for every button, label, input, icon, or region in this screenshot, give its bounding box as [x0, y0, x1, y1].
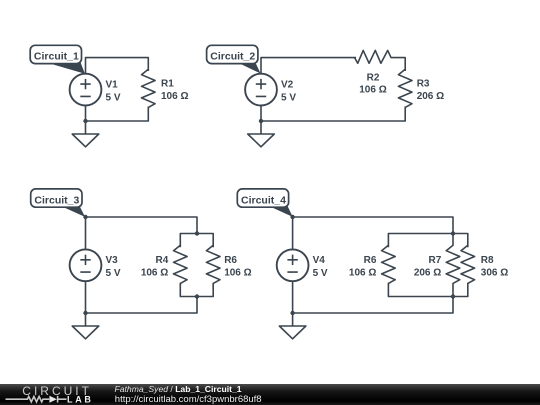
svg-text:Circuit_3: Circuit_3	[34, 194, 79, 206]
node junction C1	[83, 119, 87, 123]
node junction C2	[259, 119, 263, 123]
wire R3 bottom to node	[261, 107, 405, 122]
svg-text:R2: R2	[367, 72, 380, 83]
wire V2 bottom to ground	[260, 106, 262, 135]
svg-text:Circuit_1: Circuit_1	[34, 51, 79, 63]
wire bottom rail C4	[293, 297, 453, 314]
svg-text:V1: V1	[106, 80, 119, 91]
svg-text:R6: R6	[364, 255, 377, 266]
node bottom bar C3	[195, 294, 199, 298]
node bottom bar C4	[451, 294, 455, 298]
wire parallel top bar C4	[388, 234, 467, 248]
svg-text:Fathma_Syed / Lab_1_Circuit_1: Fathma_Syed / Lab_1_Circuit_1	[115, 384, 242, 394]
label Circuit_1	[30, 45, 85, 74]
wire R2 right to R3 top	[391, 58, 406, 71]
svg-text:R1: R1	[161, 79, 174, 90]
svg-text:V4: V4	[313, 255, 326, 266]
svg-text:Circuit_4: Circuit_4	[241, 194, 286, 206]
wire parallel top bar C3	[180, 234, 213, 248]
svg-text:R4: R4	[156, 255, 169, 266]
wire parallel bottom bar C3	[180, 283, 213, 297]
label Circuit_3	[31, 189, 85, 217]
svg-text:V2: V2	[281, 80, 294, 91]
node top bar C3	[195, 231, 199, 235]
resistor R4	[174, 245, 188, 283]
wire V2 top to R2 left	[261, 58, 356, 74]
resistor R3	[398, 69, 412, 107]
wire top rail C3	[86, 217, 198, 234]
svg-text:106 Ω: 106 Ω	[349, 268, 376, 279]
svg-text:5 V: 5 V	[106, 93, 121, 104]
svg-text:5 V: 5 V	[106, 268, 121, 279]
wire V4 top	[292, 217, 294, 249]
wire bottom rail C3	[86, 297, 198, 314]
svg-text:306 Ω: 306 Ω	[481, 268, 508, 279]
ground C4	[279, 326, 306, 339]
svg-text:106 Ω: 106 Ω	[161, 91, 188, 102]
svg-text:LAB: LAB	[67, 394, 94, 404]
svg-text:106 Ω: 106 Ω	[224, 268, 251, 279]
ground C1	[72, 134, 99, 147]
svg-text:106 Ω: 106 Ω	[141, 268, 168, 279]
wire R1 bottom to node	[86, 107, 149, 122]
wire V1 top to R1 top	[86, 58, 149, 74]
wire V4 bottom to ground	[292, 281, 294, 326]
resistor R8	[461, 245, 475, 283]
svg-text:106 Ω: 106 Ω	[359, 84, 386, 95]
wire V3 top	[85, 217, 87, 249]
voltage source V2	[245, 74, 277, 106]
wire parallel bottom bar C4	[388, 283, 467, 297]
svg-text:R8: R8	[481, 255, 494, 266]
wire V3 bottom to ground	[85, 281, 87, 326]
node bottom-left C3	[83, 311, 87, 315]
node top-left C3	[83, 215, 87, 219]
node top-left C4	[290, 215, 294, 219]
resistor R1	[142, 69, 156, 107]
svg-text:R6: R6	[224, 255, 237, 266]
label Circuit_2	[207, 45, 261, 73]
node top bar C4	[451, 231, 455, 235]
resistor R6 (circuit 4)	[382, 245, 396, 283]
svg-text:V3: V3	[106, 255, 119, 266]
voltage source V1	[70, 74, 102, 106]
svg-text:Circuit_2: Circuit_2	[210, 51, 255, 63]
resistor R6 (circuit 3)	[206, 245, 220, 283]
wire top rail C4	[293, 217, 453, 234]
footer bar	[0, 384, 540, 405]
svg-text:R3: R3	[417, 79, 430, 90]
logo resistor-diode line	[6, 396, 67, 403]
ground C3	[72, 326, 99, 339]
svg-text:206 Ω: 206 Ω	[414, 268, 441, 279]
ground C2	[248, 134, 275, 147]
svg-text:206 Ω: 206 Ω	[417, 91, 444, 102]
svg-text:R7: R7	[429, 255, 442, 266]
resistor R2	[355, 50, 391, 63]
svg-text:5 V: 5 V	[281, 93, 296, 104]
resistor R7	[446, 234, 460, 297]
wire V1 bottom to ground	[85, 106, 87, 135]
voltage source V3	[70, 249, 102, 281]
svg-text:http://circuitlab.com/cf3pwnbr: http://circuitlab.com/cf3pwnbr68uf8	[115, 394, 262, 405]
svg-text:5 V: 5 V	[313, 268, 328, 279]
voltage source V4	[277, 249, 309, 281]
label Circuit_4	[237, 189, 292, 217]
node bottom-left C4	[290, 311, 294, 315]
